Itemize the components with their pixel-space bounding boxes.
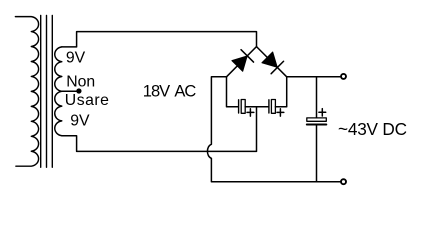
svg-text:~43V DC: ~43V DC: [338, 119, 407, 139]
wire D1 anode to capacitor C1: [227, 77, 239, 107]
diode D2: [257, 47, 287, 77]
node center tap dot: [76, 88, 81, 93]
svg-text:9V: 9V: [70, 113, 90, 130]
wire top output rail: [287, 76, 341, 78]
capacitor C1: [239, 100, 246, 114]
svg-text:9V: 9V: [66, 50, 86, 67]
svg-text:Non: Non: [66, 74, 95, 91]
wire secondary top lead to diode apex: [62, 32, 257, 47]
transformer T1 secondary winding: [55, 47, 62, 136]
diode D1: [227, 47, 257, 77]
transformer T1 primary winding with leads: [15, 17, 38, 167]
terminal positive output: [341, 74, 346, 79]
label C3 plus: [319, 109, 326, 116]
svg-text:18V AC: 18V AC: [143, 82, 197, 100]
terminal negative output: [341, 179, 346, 184]
wire electrolytic top lead: [316, 77, 318, 118]
wire C2 to D2 cathode: [275, 77, 286, 107]
wire DC minus rail with hop over AC wire: [207, 77, 340, 182]
wire secondary bottom lead to capacitor midpoint: [62, 107, 257, 152]
capacitor C2: [269, 100, 276, 114]
capacitor C3 electrolytic: [307, 118, 327, 125]
svg-text:Usare: Usare: [65, 92, 110, 109]
wire electrolytic bottom lead: [316, 125, 318, 182]
transformer core: [41, 15, 53, 167]
label C1 plus: [247, 109, 254, 116]
center tap wire: [62, 90, 77, 92]
label C2 plus: [277, 109, 284, 116]
wire capacitor midpoint: [245, 106, 268, 108]
